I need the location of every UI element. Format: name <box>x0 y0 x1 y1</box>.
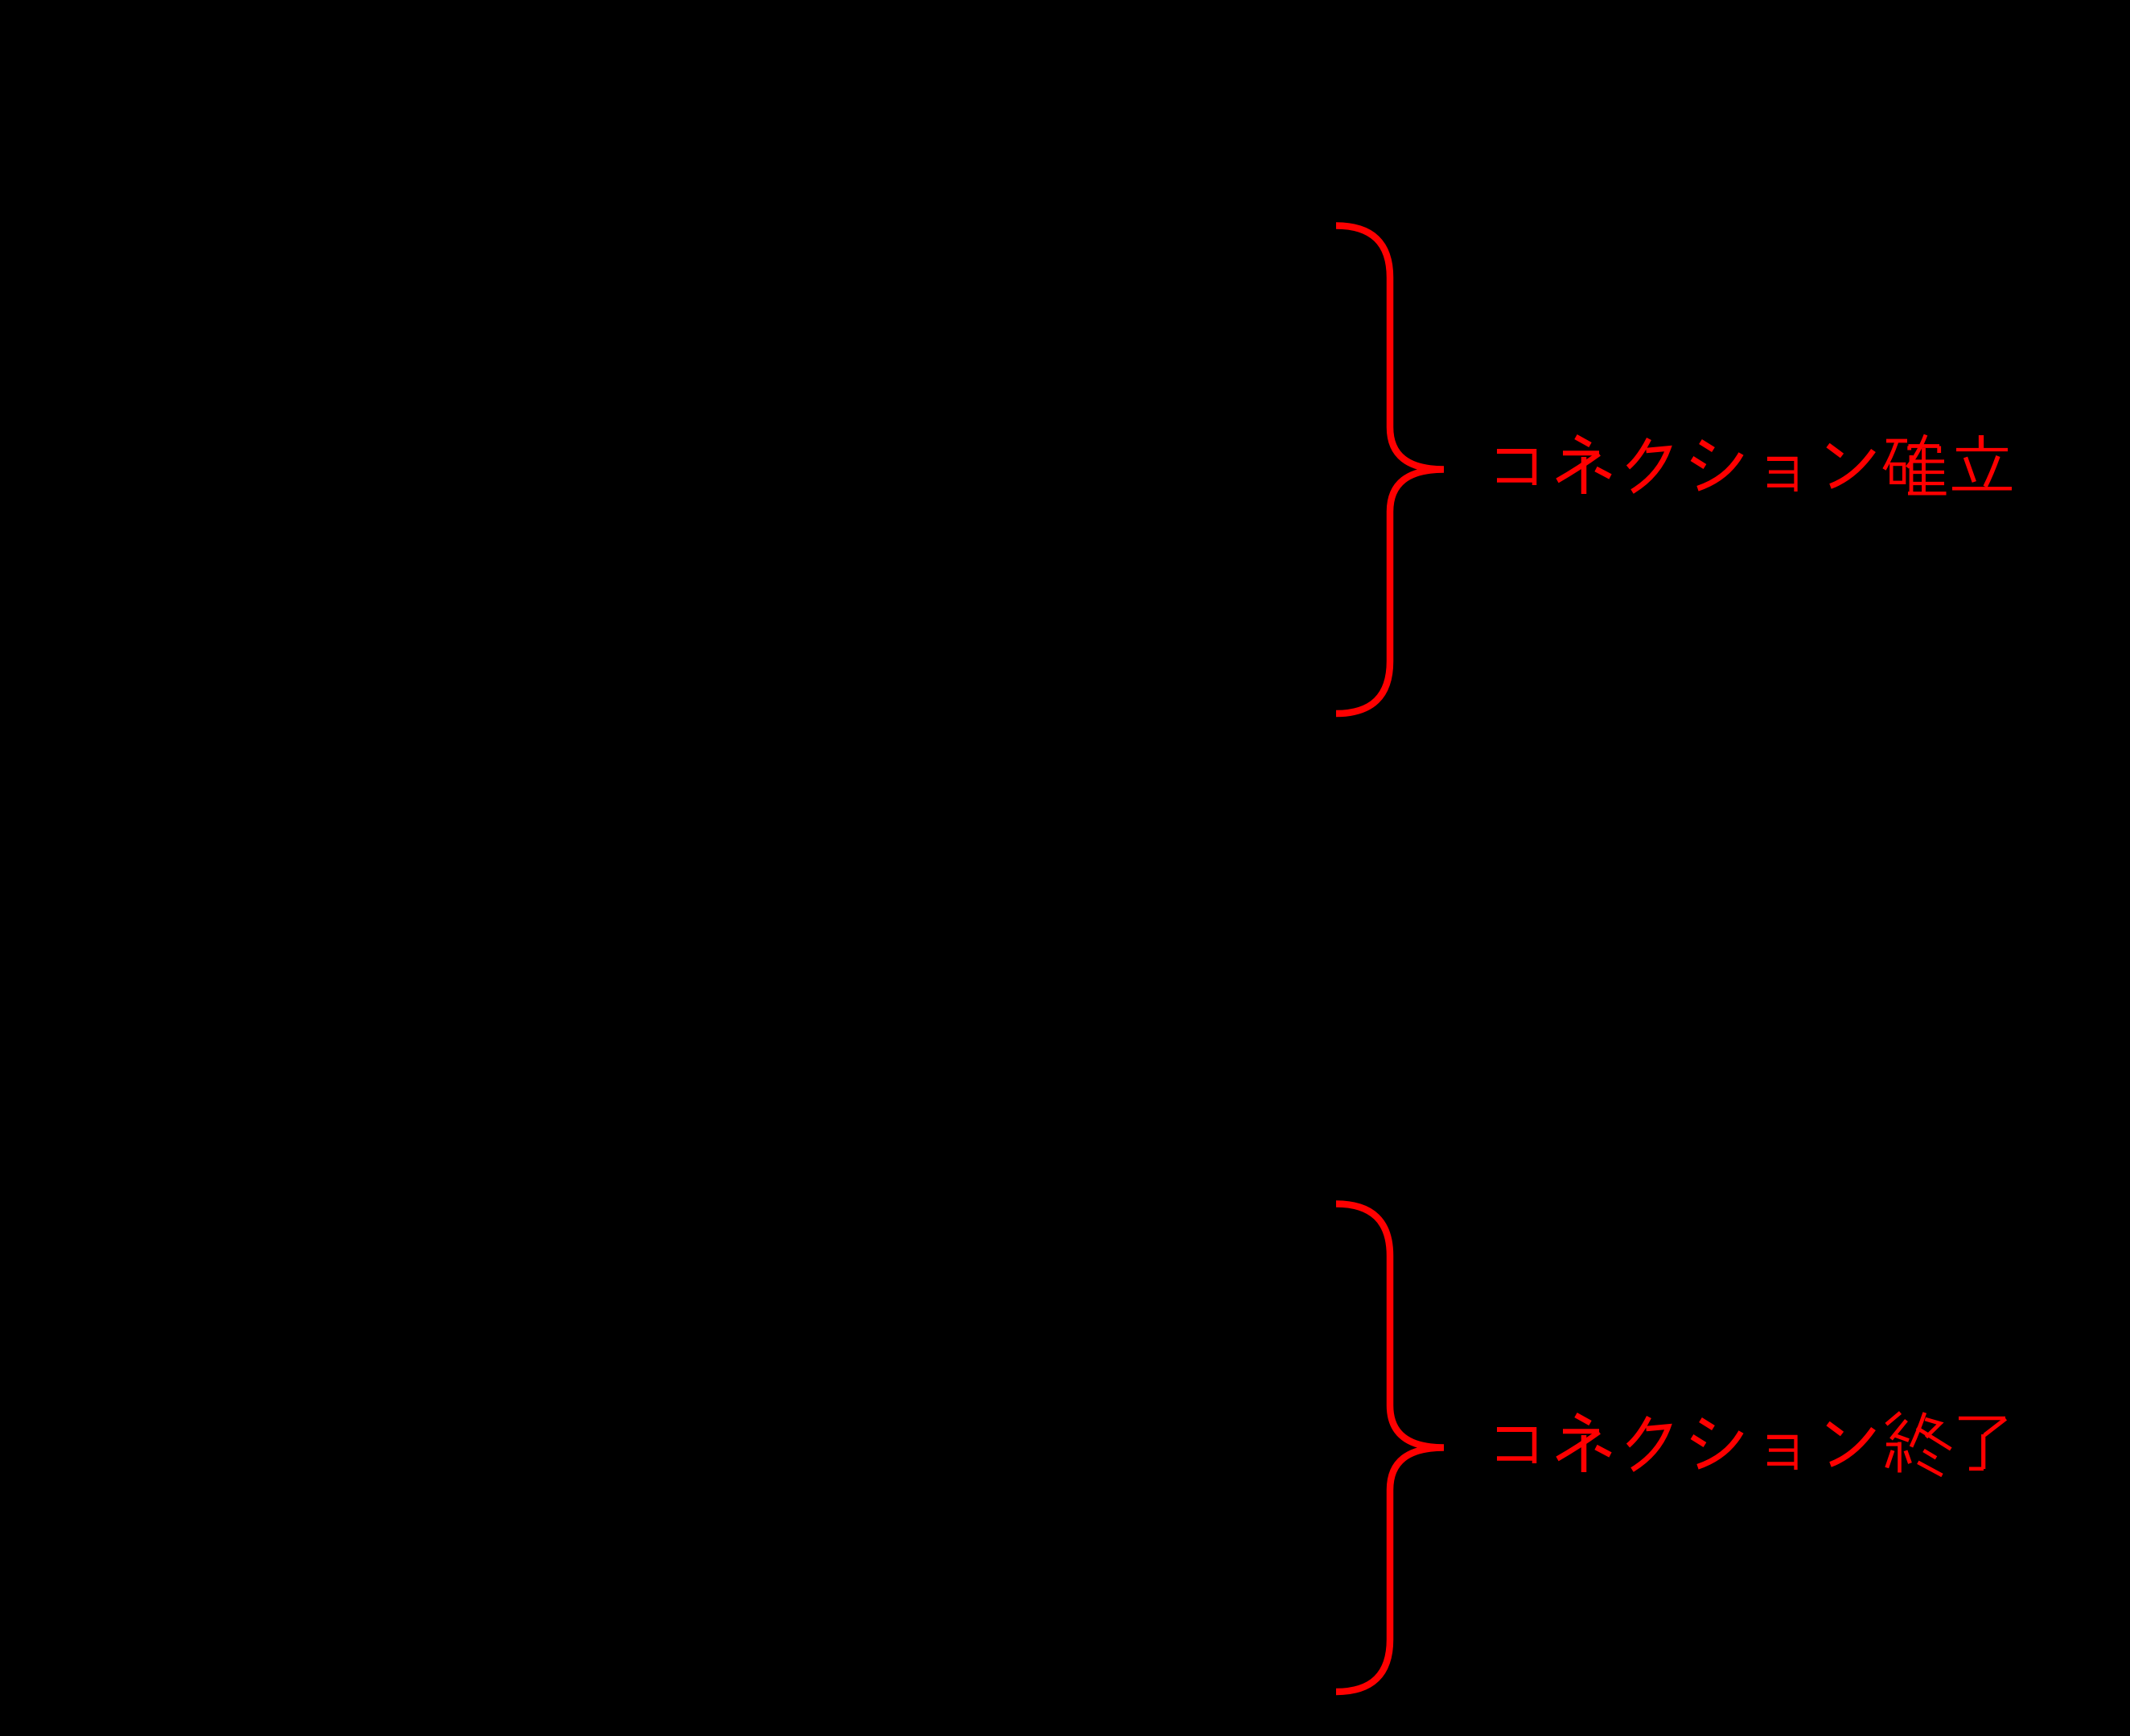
brace B2: right curly brace grouping the connection termination <box>1336 1204 1444 1693</box>
kanji 立 <box>1979 435 1984 449</box>
kanji 了 <box>1959 1417 2005 1421</box>
kanji 終 <box>1886 1413 1901 1425</box>
brace B1: right curly brace grouping the 3-way handshake <box>1336 226 1444 714</box>
label text コネクション終了 (connection termination) <box>1497 1413 2006 1475</box>
kanji 確 <box>1886 439 1907 443</box>
label text コネクション確立 (connection establishment) <box>1497 435 2012 496</box>
